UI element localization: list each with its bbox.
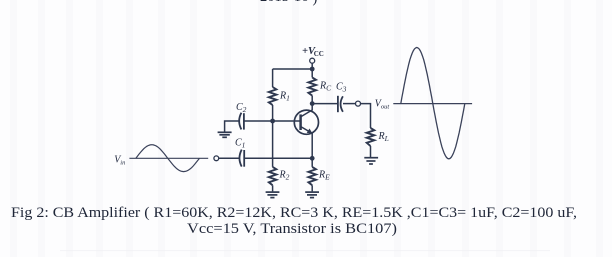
wire: left rail R1 to base node (272, 105, 274, 121)
wire: output terminal to RL corner (361, 104, 371, 128)
junction node at emitter (310, 156, 315, 161)
wire: R2 to its ground (272, 185, 274, 191)
capacitor C2 (239, 113, 244, 130)
wire: C3 to output terminal (343, 103, 356, 105)
junction node at collector (310, 101, 315, 106)
capacitor C1 (239, 150, 244, 167)
ground below RL (364, 158, 378, 164)
wire: left rail base node down to R2 (crosses input wire, no junction) (272, 121, 274, 167)
resistor RC (308, 77, 316, 95)
output sine wave (401, 48, 465, 159)
svg-text:2015-16: 2015-16 (260, 0, 308, 5)
junction node at base (270, 119, 275, 124)
transistor Q1 BC107 (294, 104, 318, 135)
wire: RE to its ground (311, 185, 313, 191)
ground at C2 (218, 132, 232, 137)
output terminal circle (356, 101, 361, 106)
ground below RE (305, 192, 319, 198)
wire: top rail from left rail to Vcc node (273, 68, 313, 70)
wire: right rail Vcc node to RC (311, 69, 313, 77)
wire: collector node to C3 (312, 103, 338, 105)
input sine axis (129, 157, 208, 159)
Vcc terminal circle (310, 58, 315, 63)
capacitor C3 (338, 96, 343, 112)
resistor RL (367, 128, 375, 146)
wire: base wire from C2 to transistor base (244, 120, 301, 122)
svg-text:Vcc=15 V, Transistor is BC107): Vcc=15 V, Transistor is BC107) (187, 221, 397, 237)
resistor RE (308, 167, 316, 185)
output sine axis (393, 103, 472, 105)
wire: C2 left plate to ground (225, 121, 240, 132)
wire: emitter junction to RE (311, 158, 313, 167)
svg-text:Fig 2: CB Amplifier ( R1=60K,: Fig 2: CB Amplifier ( R1=60K, R2=12K, RC… (11, 205, 577, 221)
wire: RC to collector node (311, 96, 313, 104)
junction node at Vcc rail (310, 67, 315, 72)
wire: input terminal to C1 (219, 157, 240, 159)
wire: emitter vertical to input rail junction (311, 133, 313, 158)
input terminal circle (214, 156, 219, 161)
faint scan artifact line near bottom (60, 249, 550, 252)
svg-text:): ) (313, 0, 318, 7)
ground below R2 (266, 192, 280, 198)
wire: RL to its ground (370, 146, 372, 157)
input sine wave (136, 145, 200, 172)
wire: left rail upper (top rail to R1) (272, 69, 274, 87)
wire: Vcc terminal lead (311, 63, 313, 69)
wire: C1 to emitter junction (244, 157, 312, 159)
resistor R2 (269, 167, 277, 185)
resistor R1 (269, 87, 277, 105)
